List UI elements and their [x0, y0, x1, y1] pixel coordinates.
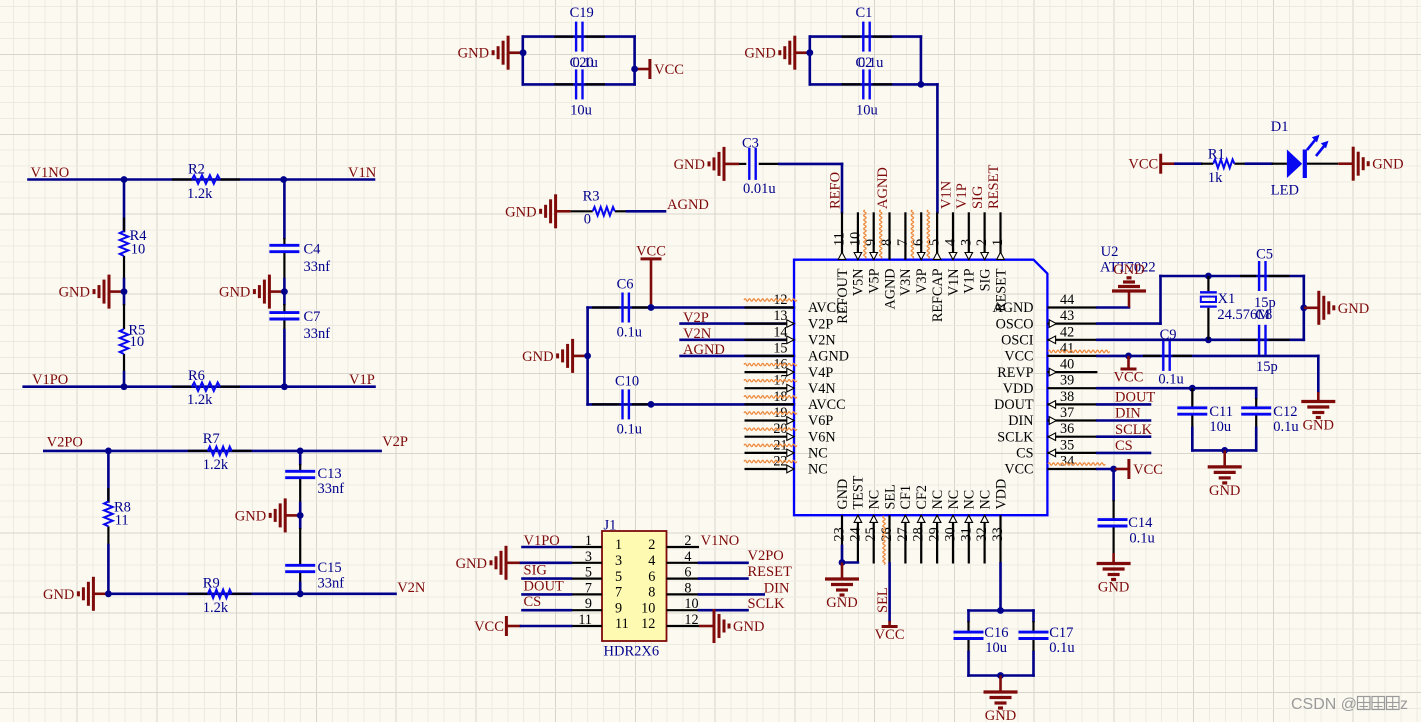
wire R8 branch upper — [107, 451, 110, 502]
ground GND C19 — [458, 36, 523, 70]
svg-text:NC: NC — [946, 490, 962, 510]
pin 35 CS right — [1016, 437, 1097, 461]
svg-text:38: 38 — [1060, 389, 1074, 405]
value ATT7022 — [1100, 260, 1156, 276]
pin 15 AGND left — [745, 340, 849, 364]
node V1N junction — [280, 176, 287, 183]
pin 7 V3N top — [895, 212, 914, 296]
wire DOUT J1 — [523, 593, 572, 596]
svg-text:C5: C5 — [1256, 246, 1273, 262]
wire V2P pin13 — [681, 322, 794, 325]
svg-text:GND: GND — [1209, 483, 1240, 499]
wire C19 loop left — [521, 37, 524, 85]
svg-text:0.1u: 0.1u — [617, 325, 642, 341]
svg-text:33nf: 33nf — [318, 576, 345, 592]
svg-text:VCC: VCC — [1133, 462, 1163, 478]
svg-text:VCC: VCC — [1004, 349, 1033, 365]
wire C13 branch upper — [299, 451, 302, 464]
compile squiggles top pins — [864, 210, 930, 258]
net label V2N — [397, 580, 426, 596]
wire C4 branch upper — [283, 180, 286, 239]
resistor R3 — [571, 189, 627, 228]
svg-text:33nf: 33nf — [304, 326, 331, 342]
net label SIG J1 — [524, 563, 548, 579]
wire C1 top — [810, 35, 921, 38]
svg-text:C11: C11 — [1209, 404, 1233, 420]
capacitor C13 — [285, 464, 344, 497]
svg-text:GND: GND — [733, 619, 764, 635]
wire VCC to R1 — [1176, 162, 1202, 165]
net label V1PO J1 — [524, 533, 560, 549]
svg-text:V3P: V3P — [914, 268, 930, 293]
wire CS — [1097, 452, 1150, 455]
pin 28 CF2 bottom — [911, 485, 930, 563]
pin 42 OSCI right — [1001, 324, 1097, 348]
svg-text:1k: 1k — [1208, 170, 1223, 186]
wire pin34 down to C14 — [1112, 469, 1115, 500]
svg-text:43: 43 — [1060, 308, 1074, 324]
wire AGND pin15 — [681, 355, 794, 358]
svg-text:GND: GND — [1338, 301, 1369, 317]
pin 31 NC bottom — [958, 490, 977, 564]
pin 1 RESET top — [990, 212, 1009, 312]
svg-text:2: 2 — [648, 537, 655, 553]
svg-text:40: 40 — [1060, 357, 1074, 373]
svg-text:9: 9 — [585, 596, 592, 612]
ground GND4 — [235, 498, 300, 532]
node R4-R5 junction — [121, 288, 128, 295]
svg-text:4: 4 — [684, 549, 691, 565]
net label V2P — [382, 434, 408, 450]
pin 12 J1 right — [641, 612, 699, 632]
capacitor C6 — [592, 277, 650, 341]
svg-text:10: 10 — [684, 596, 698, 612]
svg-text:23: 23 — [832, 527, 848, 541]
capacitor C17 — [1019, 611, 1075, 676]
svg-text:NC: NC — [930, 490, 946, 510]
svg-text:SCLK: SCLK — [1115, 422, 1153, 438]
svg-text:44: 44 — [1060, 292, 1074, 308]
ground GND C14 — [1097, 553, 1131, 596]
svg-text:TEST: TEST — [851, 475, 867, 509]
svg-text:NC: NC — [867, 490, 883, 510]
svg-text:C15: C15 — [318, 560, 342, 576]
svg-text:11: 11 — [615, 616, 629, 632]
ground GND J1 pin12 — [699, 609, 764, 643]
capacitor C20 — [554, 55, 605, 119]
svg-text:7: 7 — [585, 580, 592, 596]
svg-text:R3: R3 — [583, 189, 600, 205]
svg-text:SCLK: SCLK — [748, 596, 786, 612]
ground GND pin41 — [1301, 392, 1335, 434]
svg-text:10: 10 — [847, 232, 863, 246]
svg-text:6: 6 — [648, 569, 655, 585]
net label V2P pin13 — [683, 310, 709, 326]
capacitor C14 — [1098, 500, 1155, 553]
svg-text:5: 5 — [615, 569, 622, 585]
svg-text:V1N: V1N — [348, 165, 377, 181]
svg-text:V1NO: V1NO — [701, 533, 740, 549]
node X1 right junction — [1300, 304, 1307, 311]
svg-text:0.01u: 0.01u — [743, 181, 776, 197]
svg-text:14: 14 — [773, 324, 787, 340]
pin 21 NC left — [745, 437, 828, 461]
wire VDD pin39 — [1097, 387, 1256, 390]
wire SCLK — [1097, 435, 1150, 438]
wire VCC pin41 — [1097, 355, 1318, 358]
pin 32 NC bottom — [974, 490, 993, 564]
capacitor C19 — [554, 5, 605, 51]
pin 10 J1 right — [641, 596, 699, 616]
wire SCLK J1 — [699, 609, 748, 612]
power VCC C19 — [635, 59, 684, 79]
capacitor C15 — [285, 555, 344, 592]
pin 2 SIG top — [974, 212, 993, 291]
wire OSCI pin42 — [1097, 338, 1303, 341]
node C4-C7 junction — [281, 288, 288, 295]
capacitor C1 — [841, 5, 892, 51]
svg-text:0.1u: 0.1u — [1273, 419, 1298, 435]
pin 26 SEL bottom — [879, 484, 898, 563]
svg-text:VCC: VCC — [654, 62, 684, 78]
svg-text:V1N: V1N — [938, 180, 954, 209]
svg-text:AVCC: AVCC — [808, 397, 846, 413]
resistor R5 — [120, 292, 146, 372]
svg-text:GND: GND — [826, 595, 857, 611]
svg-text:AVCC: AVCC — [808, 300, 846, 316]
svg-text:AGND: AGND — [882, 269, 898, 310]
svg-text:AGND: AGND — [808, 349, 849, 365]
svg-text:1.2k: 1.2k — [203, 600, 229, 616]
svg-text:4: 4 — [943, 239, 959, 246]
svg-text:REFO: REFO — [828, 172, 844, 209]
wire pin18 rail — [588, 403, 794, 406]
wire V2N pin14 — [681, 338, 794, 341]
svg-text:GND: GND — [985, 708, 1016, 722]
svg-text:0.1u: 0.1u — [1129, 530, 1154, 546]
net label V1NO J1 — [701, 533, 740, 549]
svg-text:OSCO: OSCO — [996, 316, 1034, 332]
node VCC pin34 junction — [1110, 466, 1117, 473]
svg-text:GND: GND — [522, 349, 553, 365]
ground GND pin23 — [825, 563, 859, 612]
pin 3 J1 left — [571, 549, 622, 569]
svg-text:GND: GND — [1372, 157, 1403, 173]
svg-text:AGND: AGND — [993, 300, 1034, 316]
svg-text:CS: CS — [1016, 446, 1033, 462]
pin 12 AVCC left — [745, 292, 846, 316]
net label SCLK — [1115, 422, 1153, 438]
svg-text:15p: 15p — [1256, 359, 1278, 375]
svg-text:7: 7 — [615, 585, 622, 601]
net label CS — [1115, 438, 1133, 454]
power VCC pin34 — [1114, 459, 1163, 479]
svg-text:REVP: REVP — [997, 365, 1033, 381]
svg-text:V5N: V5N — [851, 269, 867, 297]
resistor R6 — [172, 368, 240, 408]
capacitor C8 — [1240, 307, 1290, 375]
ground GND C3 — [674, 147, 739, 181]
pin 16 V4P left — [745, 357, 834, 381]
svg-text:33nf: 33nf — [304, 259, 331, 275]
svg-text:27: 27 — [895, 527, 911, 541]
svg-text:C6: C6 — [617, 277, 634, 293]
svg-text:DIN: DIN — [764, 580, 790, 596]
svg-text:10u: 10u — [985, 640, 1007, 656]
svg-text:0.1u: 0.1u — [1158, 372, 1183, 388]
pin 17 V4N left — [745, 373, 836, 397]
connector J1 body — [602, 531, 667, 641]
pin 4 V1N top — [943, 212, 962, 296]
svg-text:V1P: V1P — [954, 183, 970, 209]
svg-text:V2P: V2P — [808, 316, 833, 332]
svg-text:12: 12 — [641, 616, 655, 632]
svg-text:NC: NC — [962, 490, 978, 510]
pin 8 AGND top — [879, 212, 898, 309]
wire C3 to REFO — [780, 164, 843, 212]
svg-text:3: 3 — [585, 549, 592, 565]
svg-text:24: 24 — [847, 527, 863, 541]
capacitor C16 — [954, 611, 1009, 676]
node C2 right junction — [918, 81, 925, 88]
ground GND C16 — [984, 676, 1018, 722]
svg-text:3: 3 — [615, 553, 622, 569]
svg-text:C9: C9 — [1160, 327, 1177, 343]
svg-text:AGND: AGND — [667, 197, 709, 213]
net label V1N — [348, 165, 377, 181]
node C1 left junction — [806, 49, 813, 56]
node V2PO junction — [105, 448, 112, 455]
power VCC pin41 — [1114, 356, 1144, 386]
node V1NO junction — [121, 176, 128, 183]
wire pin41 down to GND — [1317, 356, 1320, 392]
svg-text:C8: C8 — [1255, 307, 1272, 323]
svg-text:GND: GND — [43, 587, 74, 603]
wire C1 loop right — [920, 37, 923, 85]
ground GND C1 — [744, 36, 809, 70]
svg-text:4: 4 — [648, 553, 655, 569]
resistor R8 — [104, 488, 131, 545]
wire V1NO-V1N top — [29, 178, 375, 181]
pin 43 OSCO right — [996, 308, 1098, 332]
pin 11 J1 left — [571, 612, 629, 632]
svg-text:V2P: V2P — [382, 434, 408, 450]
pin 29 NC bottom — [927, 490, 946, 564]
svg-text:R1: R1 — [1208, 146, 1225, 162]
pin 36 SCLK right — [997, 421, 1097, 445]
svg-text:GND: GND — [1113, 262, 1144, 278]
pin 14 V2N left — [745, 324, 836, 348]
wire C20 bottom — [523, 83, 635, 86]
svg-text:C7: C7 — [304, 309, 321, 325]
wire C16 loop bottom — [969, 674, 1034, 677]
net label SCLK J1 — [748, 596, 786, 612]
net label REFO — [828, 172, 844, 209]
svg-text:29: 29 — [927, 527, 943, 541]
wire pin23-24 gnd — [842, 546, 858, 563]
svg-text:V4N: V4N — [808, 381, 836, 397]
svg-text:11: 11 — [832, 232, 848, 246]
svg-text:33: 33 — [990, 527, 1006, 541]
svg-text:z: z — [1400, 696, 1408, 713]
svg-text:V1P: V1P — [962, 268, 978, 293]
resistor R9 — [188, 576, 252, 617]
wire V1PO J1 — [523, 546, 572, 549]
svg-text:V1P: V1P — [349, 372, 375, 388]
svg-text:30: 30 — [943, 527, 959, 541]
net label DOUT J1 — [524, 578, 564, 594]
node R8-R9 junction — [105, 590, 112, 597]
wire DIN — [1097, 419, 1150, 422]
svg-text:34: 34 — [1060, 454, 1074, 470]
resistor R4 — [120, 218, 148, 292]
svg-text:36: 36 — [1060, 421, 1074, 437]
svg-text:1.2k: 1.2k — [187, 186, 213, 202]
svg-text:26: 26 — [879, 527, 895, 541]
svg-text:R6: R6 — [188, 368, 205, 384]
svg-text:11: 11 — [115, 513, 129, 529]
svg-text:VDD: VDD — [993, 479, 1009, 510]
svg-text:V2P: V2P — [683, 310, 709, 326]
net label DIN J1 — [764, 580, 790, 596]
pin 30 NC bottom — [943, 490, 962, 564]
net label DOUT — [1115, 390, 1155, 406]
pin 7 J1 left — [571, 580, 622, 600]
svg-text:CS: CS — [524, 594, 542, 610]
svg-text:11: 11 — [578, 612, 592, 628]
pin 9 J1 left — [571, 596, 622, 616]
compile squiggles right pins — [1048, 350, 1110, 465]
wire R3 to AGND — [627, 210, 665, 213]
wire C7 branch lower — [283, 330, 286, 387]
wire VDD pin33 to C16 — [999, 564, 1002, 611]
wire VCC pin34 — [1097, 468, 1113, 471]
resistor R2 — [172, 162, 240, 203]
ground AGND symbol U2 — [1112, 262, 1146, 308]
pin 37 DIN right — [1008, 405, 1097, 429]
svg-text:8: 8 — [684, 580, 691, 596]
svg-text:AGND: AGND — [875, 167, 891, 209]
svg-text:GND: GND — [674, 157, 705, 173]
net label SEL — [875, 587, 891, 613]
svg-text:32: 32 — [974, 527, 990, 541]
wire left rail C6-C10 — [586, 308, 589, 405]
node V1P junction — [281, 383, 288, 390]
wire V2N bottom — [108, 592, 395, 595]
pin 5 REFCAP top — [927, 212, 946, 322]
svg-text:VCC: VCC — [1114, 370, 1144, 386]
pin 3 V1P top — [958, 212, 977, 293]
svg-text:25: 25 — [863, 527, 879, 541]
wire OSCO pin43 — [1097, 276, 1303, 324]
svg-text:10u: 10u — [570, 102, 592, 118]
svg-text:0.1u: 0.1u — [573, 55, 598, 71]
net label V2PO J1 — [748, 548, 784, 564]
net label SIG pin2 — [970, 185, 986, 209]
crystal X1 — [1200, 276, 1270, 340]
ground GND1 — [59, 275, 124, 309]
node V1PO junction — [121, 383, 128, 390]
node left rail junction — [584, 353, 591, 360]
pin 34 VCC right — [1004, 454, 1097, 478]
pin 2 J1 right — [648, 533, 699, 553]
ground GND X1 — [1304, 291, 1369, 325]
svg-text:GND: GND — [219, 285, 250, 301]
wire V1PO-V1P bottom — [24, 385, 375, 388]
net label V1PO — [32, 372, 68, 388]
pin 4 J1 right — [648, 549, 699, 569]
power VCC pin26 — [875, 621, 905, 643]
svg-text:VCC: VCC — [636, 243, 666, 259]
svg-text:41: 41 — [1060, 340, 1074, 356]
svg-text:NC: NC — [808, 446, 828, 462]
svg-text:R2: R2 — [188, 162, 205, 178]
svg-text:SIG: SIG — [977, 269, 993, 292]
svg-text:SCLK: SCLK — [997, 429, 1034, 445]
net label AGND — [667, 197, 709, 213]
pin 13 V2P left — [745, 308, 834, 332]
pin 6 J1 right — [648, 565, 699, 585]
svg-text:C4: C4 — [304, 242, 322, 258]
svg-text:GND: GND — [458, 46, 489, 62]
node C16 top junction — [997, 607, 1004, 614]
svg-text:8: 8 — [648, 585, 655, 601]
op-amp U2 ATT7022 body — [794, 260, 1047, 516]
svg-text:CSDN @: CSDN @ — [1291, 696, 1357, 713]
svg-text:NC: NC — [977, 490, 993, 510]
svg-text:VCC: VCC — [1004, 462, 1033, 478]
wire C1 loop left — [808, 37, 811, 85]
wire X1 right rail — [1303, 276, 1306, 340]
svg-text:28: 28 — [911, 527, 927, 541]
svg-text:J1: J1 — [604, 518, 617, 534]
pin 19 V6P left — [745, 405, 834, 429]
svg-text:C17: C17 — [1049, 625, 1073, 641]
svg-text:V2N: V2N — [397, 580, 426, 596]
svg-text:SEL: SEL — [882, 484, 898, 509]
pin 9 V5P top — [863, 212, 882, 293]
power VCC LED — [1128, 154, 1175, 174]
svg-text:13: 13 — [773, 308, 787, 324]
wire V2PO J1 — [699, 561, 748, 564]
svg-text:CF1: CF1 — [898, 485, 914, 509]
capacitor C3 — [739, 136, 780, 198]
svg-text:VCC: VCC — [875, 627, 905, 643]
node VCC pin41 junction — [1125, 353, 1132, 360]
node C19 left junction — [520, 49, 527, 56]
ground GND R3 — [505, 194, 570, 228]
svg-text:DIN: DIN — [1008, 413, 1033, 429]
svg-text:35: 35 — [1060, 437, 1074, 453]
svg-text:DOUT: DOUT — [994, 397, 1034, 413]
svg-text:V5P: V5P — [867, 268, 883, 293]
svg-text:VDD: VDD — [1003, 381, 1034, 397]
svg-text:RESET: RESET — [748, 564, 792, 580]
svg-text:V4P: V4P — [808, 365, 833, 381]
node VCC-C6 junction — [648, 304, 655, 311]
ground GND C6C10 — [522, 339, 587, 373]
pin 23 GND bottom — [832, 479, 851, 564]
capacitor C2 — [841, 55, 892, 119]
svg-text:37: 37 — [1060, 405, 1074, 421]
wire V2PO-V2P top — [44, 450, 380, 453]
node pin23 junction — [839, 559, 846, 566]
svg-text:1: 1 — [615, 537, 622, 553]
svg-text:U2: U2 — [1101, 244, 1119, 260]
net label DIN — [1115, 406, 1141, 422]
wire R4 branch upper — [123, 180, 126, 232]
pin 33 VDD bottom — [990, 479, 1009, 564]
